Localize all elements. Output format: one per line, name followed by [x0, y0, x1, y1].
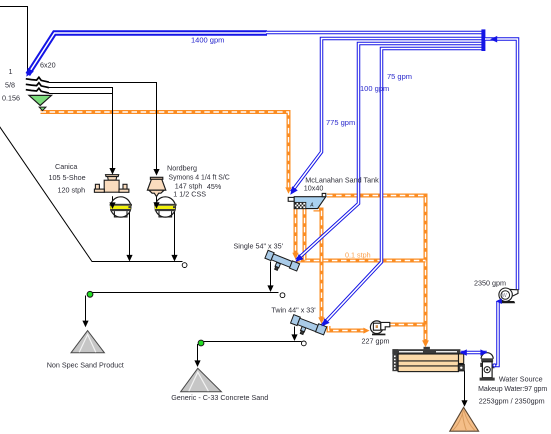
- svg-text:Water Source: Water Source: [499, 374, 543, 383]
- wire deck3 oversize joins Canica feed: [49, 93, 113, 95]
- screen S1 deck 1: [26, 77, 49, 82]
- twin screen 44x33: [288, 314, 326, 341]
- arrow washer 1 onto conveyor 1: [126, 255, 132, 262]
- arrow slurry into single screen: [292, 253, 298, 259]
- svg-text:0.1 stph: 0.1 stph: [345, 250, 371, 259]
- sand tank McLanahan: [288, 193, 326, 208]
- svg-text:105 5-Shoe: 105 5-Shoe: [49, 173, 86, 182]
- arrow return water into water source: [480, 349, 487, 355]
- arrow drop to non spec stockpile: [82, 321, 88, 328]
- water line 775 gpm to sand tank: [292, 39, 484, 192]
- wire washer 2 to conveyor 1: [174, 208, 176, 256]
- arrow water into single screen: [295, 254, 303, 262]
- washer 2 (log washer): [154, 197, 176, 217]
- wire conveyor 2 drop to stockpile: [85, 296, 87, 322]
- port circle conveyor 2: [280, 293, 285, 298]
- slurry line tank underflow 1 to single screen: [294, 209, 298, 253]
- svg-text:Generic - C-33 Concrete Sand: Generic - C-33 Concrete Sand: [171, 393, 268, 402]
- svg-text:100 gpm: 100 gpm: [360, 84, 389, 93]
- sand screw (fine material washer): [392, 347, 464, 372]
- arrow feed into crusher Canica: [109, 168, 115, 175]
- svg-text:227 gpm: 227 gpm: [362, 336, 390, 345]
- bin (fines hopper): [29, 95, 52, 110]
- makeup water line from water source to sand screw: [461, 351, 487, 355]
- wire conveyor 3 drop to stockpile: [197, 344, 199, 361]
- water supply line from pump W to manifold: [485, 39, 518, 290]
- slurry line tank underflow 2: [303, 209, 307, 261]
- svg-text:10x40: 10x40: [304, 183, 324, 192]
- svg-text:1 1/2 CSS: 1 1/2 CSS: [173, 189, 206, 198]
- arrow water into screen S1: [26, 68, 34, 77]
- water line 100 gpm to single screen: [296, 44, 483, 261]
- arrow Canica into washer 1: [109, 202, 115, 209]
- screen S1 deck 3: [26, 88, 49, 93]
- slurry line pump 227 to sand screw line: [390, 323, 426, 327]
- slurry line 0.1 stph: [296, 259, 426, 263]
- arrow drop to c33 stockpile: [194, 360, 200, 367]
- arrow water into pump W: [496, 298, 502, 304]
- crusher Canica VSI: [94, 175, 128, 193]
- svg-text:Twin 44" x 33': Twin 44" x 33': [271, 305, 316, 314]
- svg-text:0.156: 0.156: [2, 94, 20, 103]
- slurry line twin screen to pump 227: [329, 326, 365, 331]
- crusher Symons cone: [147, 177, 165, 196]
- slurry line sand tank overflow to sand screw: [327, 196, 426, 341]
- arrow washer 2 onto conveyor 1: [171, 255, 177, 262]
- arrow twin screen onto conveyor 3: [291, 334, 297, 341]
- water line pump W down to water source: [494, 302, 498, 366]
- slurry line bin to sand tank: [41, 112, 289, 189]
- svg-text:45%: 45%: [207, 182, 222, 191]
- wire crusher Canica to washer 1: [112, 196, 114, 203]
- arrow slurry into sand screw: [422, 340, 429, 347]
- svg-text:775 gpm: 775 gpm: [326, 118, 355, 127]
- stockpile non spec sand: [71, 331, 104, 353]
- water line 75 gpm to twin screen: [322, 49, 483, 326]
- wire washer 1 to conveyor 1: [129, 208, 131, 256]
- pump W 2350 gpm: [499, 288, 518, 303]
- svg-text:5/8: 5/8: [5, 81, 15, 90]
- arrow slurry into sand tank: [285, 187, 291, 193]
- port circle conveyor 3: [301, 341, 306, 346]
- svg-text:2253gpm / 2350gpm: 2253gpm / 2350gpm: [479, 396, 545, 405]
- svg-text:2350 gpm: 2350 gpm: [474, 278, 506, 287]
- wire single screen underflow to conveyor 2: [270, 262, 272, 287]
- arrow water into twin screen: [322, 318, 330, 326]
- arrow Symons into washer 2: [153, 202, 159, 209]
- arrow makeup water into sand screw: [460, 349, 467, 355]
- stockpile concrete sand product (tan): [450, 407, 479, 431]
- washer 1 (log washer): [110, 197, 132, 217]
- wire deck1 oversize to crusher Symons: [49, 83, 157, 170]
- arrow slurry into twin screen: [318, 317, 324, 323]
- svg-text:120 stph: 120 stph: [58, 185, 86, 194]
- single screen 54x35: [262, 250, 299, 277]
- svg-text:1400 gpm: 1400 gpm: [191, 35, 224, 44]
- svg-text:W: W: [502, 293, 507, 299]
- svg-text:1: 1: [9, 67, 13, 76]
- port dot at water source: [493, 364, 496, 367]
- svg-text:Makeup Water:97 gpm: Makeup Water:97 gpm: [478, 386, 547, 393]
- green port dot conveyor 2: [87, 291, 93, 297]
- svg-text:Symons 4 1/4 ft S/C: Symons 4 1/4 ft S/C: [169, 174, 230, 181]
- arrow water toward manifold: [490, 36, 497, 43]
- wire sand screw to stockpile: [464, 371, 466, 401]
- manifold bracket: [481, 29, 485, 51]
- stockpile c33 concrete sand: [181, 368, 222, 392]
- conveyor 2 non spec sand: [90, 292, 279, 294]
- green port dot conveyor 3: [198, 340, 204, 346]
- arrow single screen onto conveyor 2: [267, 285, 273, 292]
- svg-text:A: A: [309, 202, 314, 208]
- svg-text:Nordberg: Nordberg: [167, 163, 197, 172]
- svg-text:Canica: Canica: [55, 162, 77, 171]
- svg-text:75 gpm: 75 gpm: [387, 72, 412, 81]
- arrow water into sand tank: [290, 186, 298, 195]
- svg-text:Single 54" x 35': Single 54" x 35': [234, 242, 284, 251]
- conveyor 1: [0, 125, 183, 262]
- wire deck2 oversize to crusher Canica: [49, 88, 113, 169]
- water line 1400 gpm from screen S1 to manifold: [28, 33, 267, 75]
- wire twin screen underflow to conveyor 3: [294, 327, 296, 336]
- pump 227 gpm: [370, 321, 389, 335]
- wire crusher Symons to washer 2: [156, 193, 158, 203]
- svg-text:Non Spec Sand Product: Non Spec Sand Product: [47, 360, 124, 369]
- arrow feed into crusher Symons: [153, 169, 159, 176]
- screen S1 deck 2: [26, 83, 49, 88]
- slurry line tank underflow 3 to twin screen: [314, 210, 322, 319]
- wire plant feed: [0, 7, 28, 74]
- arrow sand screw to stockpile: [461, 400, 467, 407]
- arrow slurry into pump 227: [363, 328, 369, 334]
- conveyor 3 c33 sand: [201, 341, 302, 343]
- port circle conveyor 1: [182, 263, 187, 268]
- svg-text:6x20: 6x20: [40, 61, 56, 70]
- water source hydrant: [480, 353, 495, 381]
